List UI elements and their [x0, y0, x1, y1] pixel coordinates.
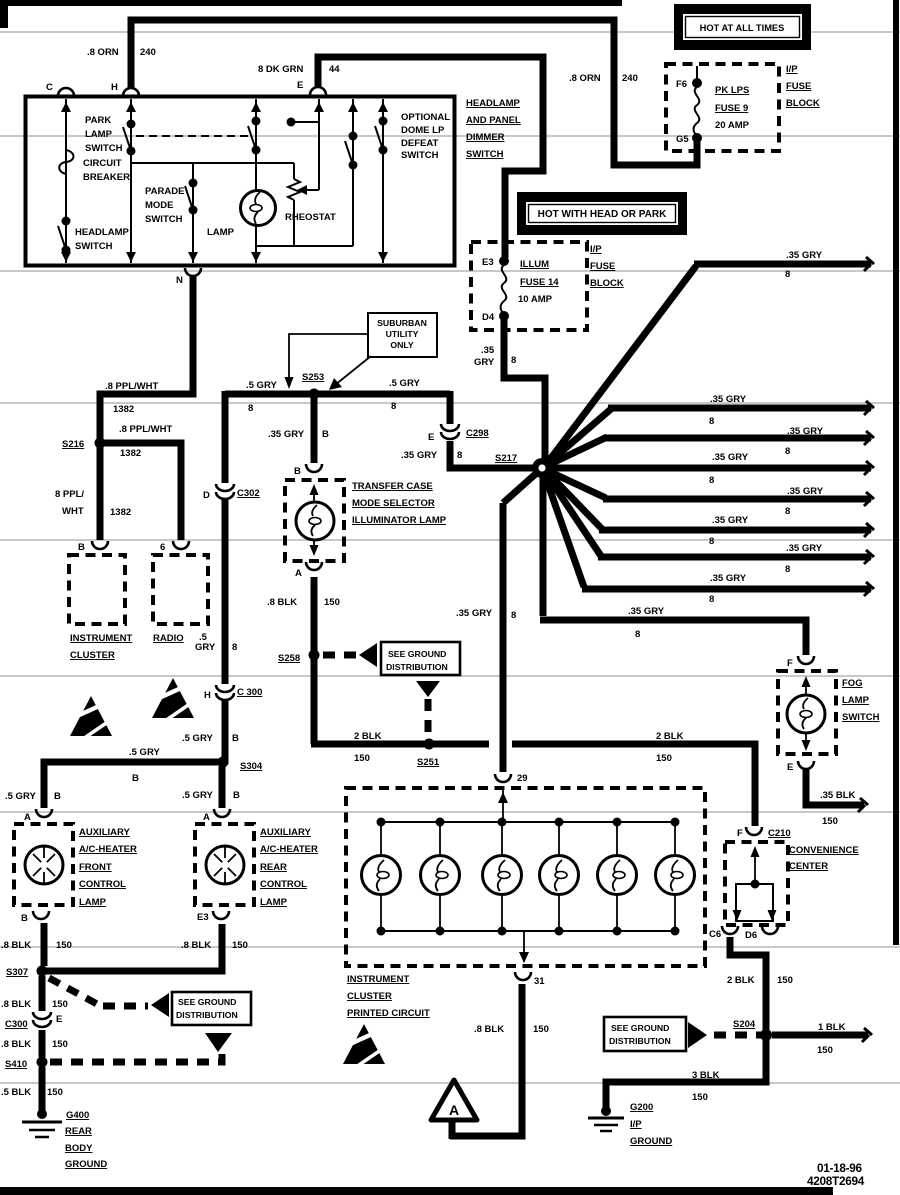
svg-text:N: N [176, 275, 183, 286]
svg-text:LAMP: LAMP [260, 897, 288, 908]
svg-text:INSTRUMENT: INSTRUMENT [347, 974, 409, 985]
svg-text:CONTROL: CONTROL [79, 879, 126, 890]
svg-text:I/P: I/P [630, 1119, 642, 1130]
svg-text:.35 GRY: .35 GRY [787, 426, 824, 437]
svg-text:.8 ORN: .8 ORN [87, 47, 119, 58]
svg-text:E: E [428, 432, 434, 443]
svg-text:S307: S307 [6, 967, 28, 978]
svg-text:S410: S410 [5, 1059, 27, 1070]
svg-text:WHT: WHT [62, 506, 84, 517]
svg-text:8: 8 [709, 416, 714, 427]
svg-text:MODE SELECTOR: MODE SELECTOR [352, 498, 435, 509]
svg-text:1382: 1382 [113, 404, 134, 415]
svg-text:MODE: MODE [145, 200, 174, 211]
svg-text:FOG: FOG [842, 678, 863, 689]
svg-text:8: 8 [785, 506, 790, 517]
svg-text:CLUSTER: CLUSTER [347, 991, 392, 1002]
svg-text:.35 GRY: .35 GRY [268, 429, 305, 440]
svg-text:150: 150 [354, 753, 370, 764]
svg-text:2 BLK: 2 BLK [727, 975, 755, 986]
svg-text:29: 29 [517, 773, 528, 784]
svg-text:E: E [56, 1014, 62, 1025]
svg-text:S204: S204 [733, 1019, 756, 1030]
svg-text:1382: 1382 [110, 507, 131, 518]
svg-text:.5 GRY: .5 GRY [182, 790, 213, 801]
svg-text:.35 GRY: .35 GRY [786, 543, 823, 554]
svg-text:150: 150 [777, 975, 793, 986]
svg-text:8: 8 [457, 450, 462, 461]
svg-text:B: B [132, 773, 139, 784]
svg-text:G5: G5 [676, 134, 689, 145]
svg-text:.35 GRY: .35 GRY [401, 450, 438, 461]
svg-text:GROUND: GROUND [630, 1136, 672, 1147]
svg-text:PARK: PARK [85, 115, 111, 126]
svg-text:F6: F6 [676, 79, 687, 90]
svg-text:.5 GRY: .5 GRY [129, 747, 160, 758]
svg-text:INSTRUMENT: INSTRUMENT [70, 633, 132, 644]
svg-text:LAMP: LAMP [79, 897, 107, 908]
svg-text:B: B [21, 913, 28, 924]
svg-text:240: 240 [140, 47, 156, 58]
svg-text:CENTER: CENTER [789, 861, 828, 872]
svg-text:4208T2694: 4208T2694 [807, 1174, 865, 1188]
svg-text:FUSE: FUSE [590, 261, 615, 272]
svg-text:150: 150 [232, 940, 248, 951]
svg-text:FUSE 14: FUSE 14 [520, 277, 559, 288]
svg-text:E3: E3 [197, 912, 209, 923]
svg-text:DEFEAT: DEFEAT [401, 138, 438, 149]
svg-text:1382: 1382 [120, 448, 141, 459]
svg-text:.35 BLK: .35 BLK [820, 790, 856, 801]
svg-text:150: 150 [324, 597, 340, 608]
svg-text:AUXILIARY: AUXILIARY [79, 827, 131, 838]
svg-text:8: 8 [785, 564, 790, 575]
svg-text:H: H [204, 690, 211, 701]
svg-text:G400: G400 [66, 1110, 89, 1121]
svg-text:B: B [294, 466, 301, 477]
svg-text:GRY: GRY [474, 357, 495, 368]
svg-text:ILLUMINATOR LAMP: ILLUMINATOR LAMP [352, 515, 447, 526]
svg-text:A/C-HEATER: A/C-HEATER [260, 844, 318, 855]
svg-text:150: 150 [533, 1024, 549, 1035]
svg-text:8: 8 [391, 401, 396, 412]
svg-text:B: B [322, 429, 329, 440]
svg-text:BLOCK: BLOCK [590, 278, 624, 289]
svg-text:REAR: REAR [65, 1126, 92, 1137]
svg-text:S251: S251 [417, 757, 440, 768]
svg-text:8: 8 [785, 446, 790, 457]
svg-text:SWITCH: SWITCH [842, 712, 880, 723]
svg-text:HOT AT ALL TIMES: HOT AT ALL TIMES [700, 23, 785, 33]
svg-text:OPTIONAL: OPTIONAL [401, 112, 450, 123]
svg-text:A/C-HEATER: A/C-HEATER [79, 844, 137, 855]
svg-text:8: 8 [248, 403, 253, 414]
svg-text:B: B [233, 790, 240, 801]
svg-text:DISTRIBUTION: DISTRIBUTION [609, 1036, 671, 1046]
svg-text:240: 240 [622, 73, 638, 84]
svg-text:UTILITY: UTILITY [386, 329, 419, 339]
svg-text:S216: S216 [62, 439, 84, 450]
svg-text:150: 150 [47, 1087, 63, 1098]
svg-text:B: B [232, 733, 239, 744]
svg-text:DISTRIBUTION: DISTRIBUTION [176, 1010, 238, 1020]
svg-text:SWITCH: SWITCH [85, 143, 123, 154]
svg-text:C6: C6 [709, 929, 721, 940]
svg-text:150: 150 [692, 1092, 708, 1103]
svg-text:F: F [787, 658, 793, 669]
svg-text:DIMMER: DIMMER [466, 132, 505, 143]
svg-text:LAMP: LAMP [207, 227, 235, 238]
svg-text:REAR: REAR [260, 862, 287, 873]
svg-text:8: 8 [709, 594, 714, 605]
svg-text:HOT WITH HEAD OR PARK: HOT WITH HEAD OR PARK [538, 209, 667, 220]
svg-text:E: E [787, 762, 793, 773]
svg-text:20 AMP: 20 AMP [715, 120, 750, 131]
svg-text:ILLUM: ILLUM [520, 259, 549, 270]
svg-text:A: A [295, 568, 302, 579]
svg-text:.5 BLK: .5 BLK [1, 1087, 31, 1098]
svg-text:CLUSTER: CLUSTER [70, 650, 115, 661]
svg-text:8: 8 [511, 355, 516, 366]
svg-text:.8 BLK: .8 BLK [1, 940, 31, 951]
svg-text:C302: C302 [237, 488, 260, 499]
svg-text:.8 BLK: .8 BLK [474, 1024, 504, 1035]
svg-text:HEADLAMP: HEADLAMP [466, 98, 520, 109]
svg-text:.8 PPL/WHT: .8 PPL/WHT [105, 381, 159, 392]
svg-text:SWITCH: SWITCH [75, 241, 113, 252]
svg-text:8: 8 [709, 536, 714, 547]
svg-text:.35 GRY: .35 GRY [787, 486, 824, 497]
svg-text:PRINTED CIRCUIT: PRINTED CIRCUIT [347, 1008, 430, 1019]
svg-text:I/P: I/P [786, 64, 798, 75]
svg-text:.35 GRY: .35 GRY [628, 606, 665, 617]
svg-text:GRY: GRY [195, 642, 216, 653]
svg-text:8: 8 [635, 629, 640, 640]
svg-text:D: D [203, 490, 210, 501]
svg-text:C300: C300 [5, 1019, 28, 1030]
svg-text:S217: S217 [495, 453, 517, 464]
svg-text:CIRCUIT: CIRCUIT [83, 158, 122, 169]
svg-text:CONTROL: CONTROL [260, 879, 307, 890]
svg-text:GROUND: GROUND [65, 1159, 107, 1170]
svg-text:01-18-96: 01-18-96 [817, 1161, 863, 1175]
svg-text:150: 150 [817, 1045, 833, 1056]
svg-text:BLOCK: BLOCK [786, 98, 820, 109]
svg-text:C 300: C 300 [237, 687, 262, 698]
svg-text:150: 150 [656, 753, 672, 764]
svg-text:G200: G200 [630, 1102, 653, 1113]
svg-text:150: 150 [52, 1039, 68, 1050]
svg-text:8: 8 [709, 475, 714, 486]
svg-text:8 PPL/: 8 PPL/ [55, 489, 84, 500]
svg-text:.8 BLK: .8 BLK [1, 999, 31, 1010]
svg-text:I/P: I/P [590, 244, 602, 255]
svg-text:A: A [203, 812, 210, 823]
svg-text:PARADE: PARADE [145, 186, 184, 197]
svg-text:DOME LP: DOME LP [401, 125, 445, 136]
svg-text:RADIO: RADIO [153, 633, 184, 644]
svg-text:BODY: BODY [65, 1143, 93, 1154]
svg-text:C: C [46, 82, 53, 93]
svg-text:.35 GRY: .35 GRY [710, 394, 747, 405]
svg-text:.8 PPL/WHT: .8 PPL/WHT [119, 424, 173, 435]
svg-text:SEE GROUND: SEE GROUND [611, 1023, 669, 1033]
svg-text:8: 8 [511, 610, 516, 621]
svg-text:10 AMP: 10 AMP [518, 294, 553, 305]
svg-text:8: 8 [232, 642, 237, 653]
svg-text:ONLY: ONLY [390, 340, 414, 350]
svg-text:CONVENIENCE: CONVENIENCE [789, 845, 859, 856]
svg-text:.8 ORN: .8 ORN [569, 73, 601, 84]
svg-text:B: B [54, 791, 61, 802]
svg-text:SWITCH: SWITCH [401, 150, 439, 161]
svg-text:AUXILIARY: AUXILIARY [260, 827, 312, 838]
svg-text:.8 BLK: .8 BLK [181, 940, 211, 951]
svg-text:D6: D6 [745, 930, 757, 941]
svg-text:SEE GROUND: SEE GROUND [178, 997, 236, 1007]
svg-text:F: F [737, 828, 743, 839]
svg-text:2 BLK: 2 BLK [656, 731, 684, 742]
svg-text:SWITCH: SWITCH [145, 214, 183, 225]
svg-text:.35 GRY: .35 GRY [712, 452, 749, 463]
svg-text:D4: D4 [482, 312, 495, 323]
svg-text:.35: .35 [481, 345, 495, 356]
svg-text:31: 31 [534, 976, 545, 987]
svg-text:SWITCH: SWITCH [466, 149, 504, 160]
svg-text:SEE GROUND: SEE GROUND [388, 649, 446, 659]
svg-text:H: H [111, 82, 118, 93]
svg-text:.5 GRY: .5 GRY [182, 733, 213, 744]
svg-text:.35 GRY: .35 GRY [712, 515, 749, 526]
svg-text:.5 GRY: .5 GRY [5, 791, 36, 802]
svg-text:.5 GRY: .5 GRY [389, 378, 420, 389]
svg-text:.8 BLK: .8 BLK [1, 1039, 31, 1050]
svg-text:44: 44 [329, 64, 340, 75]
svg-text:8 DK GRN: 8 DK GRN [258, 64, 304, 75]
svg-text:B: B [78, 542, 85, 553]
svg-text:FUSE 9: FUSE 9 [715, 103, 748, 114]
svg-text:.5 GRY: .5 GRY [246, 380, 277, 391]
svg-text:.8 BLK: .8 BLK [267, 597, 297, 608]
svg-text:HEADLAMP: HEADLAMP [75, 227, 129, 238]
svg-text:E3: E3 [482, 257, 494, 268]
svg-text:TRANSFER CASE: TRANSFER CASE [352, 481, 433, 492]
svg-text:.35 GRY: .35 GRY [456, 608, 493, 619]
svg-text:DISTRIBUTION: DISTRIBUTION [386, 662, 448, 672]
svg-text:.35 GRY: .35 GRY [710, 573, 747, 584]
svg-text:S253: S253 [302, 372, 324, 383]
svg-text:1 BLK: 1 BLK [818, 1022, 846, 1033]
svg-text:E: E [297, 80, 303, 91]
svg-text:PK LPS: PK LPS [715, 85, 749, 96]
svg-text:SUBURBAN: SUBURBAN [377, 318, 427, 328]
svg-text:150: 150 [52, 999, 68, 1010]
svg-text:S258: S258 [278, 653, 300, 664]
svg-text:A: A [24, 812, 31, 823]
svg-text:150: 150 [822, 816, 838, 827]
svg-text:FUSE: FUSE [786, 81, 811, 92]
svg-text:RHEOSTAT: RHEOSTAT [285, 212, 336, 223]
svg-text:LAMP: LAMP [85, 129, 113, 140]
svg-text:AND PANEL: AND PANEL [466, 115, 521, 126]
svg-text:2 BLK: 2 BLK [354, 731, 382, 742]
svg-text:A: A [449, 1102, 459, 1118]
svg-text:.35 GRY: .35 GRY [786, 250, 823, 261]
svg-text:BREAKER: BREAKER [83, 172, 130, 183]
svg-text:8: 8 [785, 269, 790, 280]
svg-text:150: 150 [56, 940, 72, 951]
svg-text:S304: S304 [240, 761, 263, 772]
svg-text:C210: C210 [768, 828, 791, 839]
svg-text:FRONT: FRONT [79, 862, 112, 873]
svg-text:6: 6 [160, 542, 165, 553]
svg-text:3 BLK: 3 BLK [692, 1070, 720, 1081]
svg-text:LAMP: LAMP [842, 695, 870, 706]
svg-text:C298: C298 [466, 428, 489, 439]
